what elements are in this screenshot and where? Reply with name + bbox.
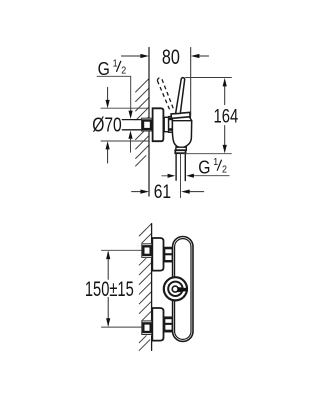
shower hose (cut) xyxy=(176,153,185,180)
svg-text:150±15: 150±15 xyxy=(85,277,134,300)
svg-text:1: 1 xyxy=(113,58,118,70)
cartridge pointer bar xyxy=(177,287,187,292)
dimension 164: line and arrows xyxy=(223,78,227,153)
svg-text:G: G xyxy=(98,58,110,80)
lever handle (dashed alternate position) xyxy=(157,78,174,112)
dimension 61: tails and arrows xyxy=(132,190,204,194)
label G 1/2 (top) xyxy=(98,58,127,80)
S-union connector top xyxy=(165,247,173,262)
svg-text:164: 164 xyxy=(214,104,239,127)
connector ring 1 xyxy=(164,117,168,131)
150±15 extension line bottom xyxy=(102,326,142,328)
wall hatching (top view) xyxy=(136,79,149,166)
label G 1/2 (bottom) xyxy=(198,156,227,178)
mixer body capsule outer (bottom view) xyxy=(173,237,193,342)
G1/2 bottom: leader with arrows xyxy=(162,174,229,178)
union nut top (bottom view) xyxy=(142,244,152,258)
Ø70 dimension arrows xyxy=(106,87,110,163)
svg-text:1: 1 xyxy=(213,156,218,168)
union nut (top view) xyxy=(142,118,153,131)
white masks under fittings xyxy=(139,243,152,258)
connector ring 2 with dark bands xyxy=(169,117,173,133)
Ø70 extension line top xyxy=(101,107,148,109)
cartridge cap inner circle xyxy=(168,282,182,296)
escutcheon flange (top view) xyxy=(153,108,164,141)
svg-text:G: G xyxy=(198,156,210,178)
svg-text:80: 80 xyxy=(162,45,180,69)
wall face line / 80+61 left extension line (top view) xyxy=(148,48,150,197)
wall face line (bottom view) xyxy=(151,224,153,351)
hose centre line / 61 right extension xyxy=(180,153,182,197)
svg-text:61: 61 xyxy=(154,180,171,202)
escutcheon flange bottom (bottom view) xyxy=(152,308,163,341)
svg-text:2: 2 xyxy=(222,164,227,176)
lever handle blade (solid position) xyxy=(176,78,185,114)
lever handle base xyxy=(171,112,190,118)
hose coupling lower band xyxy=(175,150,185,153)
mixer body capsule inner line xyxy=(175,239,191,340)
dimension 164: extension lines xyxy=(186,77,232,79)
cartridge hub circle xyxy=(172,286,178,292)
wall hatching (bottom view) xyxy=(139,224,151,351)
mixer body (top view) xyxy=(172,116,191,148)
escutcheon flange top (bottom view) xyxy=(152,238,163,271)
dimension 150±15: line and arrows xyxy=(106,251,110,327)
hose coupling upper band xyxy=(176,147,186,150)
cartridge cap outer circle xyxy=(164,277,187,300)
S-union connector bottom xyxy=(165,317,173,332)
body cap seam line xyxy=(172,120,191,122)
150±15 extension line top xyxy=(102,249,142,251)
Ø70 extension line bottom xyxy=(101,140,148,142)
svg-text:2: 2 xyxy=(121,65,126,77)
80 right extension line (body front) xyxy=(190,48,192,117)
G1/2 top: underline and leader with arrows xyxy=(97,76,133,152)
supply pipe nipple through wall xyxy=(122,120,141,130)
union nut bottom (bottom view) xyxy=(142,321,152,335)
svg-text:Ø70: Ø70 xyxy=(92,114,121,136)
dimension 80: tails and arrows xyxy=(121,54,208,58)
